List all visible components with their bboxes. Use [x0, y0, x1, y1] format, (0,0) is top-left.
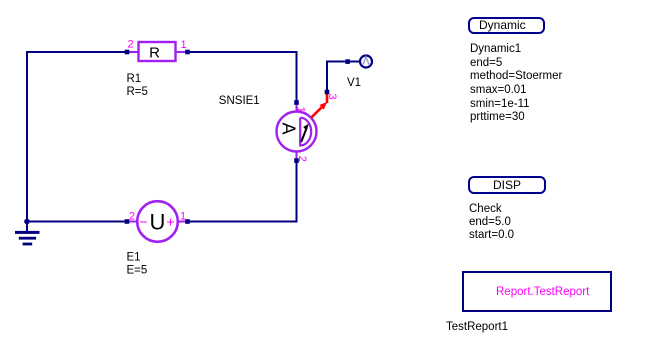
report designator label TestReport1	[446, 321, 508, 335]
display settings header DISP	[468, 176, 546, 194]
svg-text:+: +	[166, 214, 174, 230]
report block Report.TestReport	[462, 271, 612, 312]
wire	[26, 221, 127, 223]
wire	[327, 62, 360, 93]
svg-text:R=5: R=5	[127, 86, 148, 98]
voltage probe V1	[360, 56, 372, 68]
probe pin 3 square	[325, 90, 330, 95]
svg-text:2: 2	[296, 156, 308, 162]
ammeter SNSIE1	[277, 104, 317, 159]
ammeter SNSIE1 pin 2 square	[294, 158, 299, 163]
wire	[187, 52, 297, 102]
svg-text:SNSIE1: SNSIE1	[219, 95, 260, 107]
voltage source E1 pin 1 square	[185, 219, 190, 224]
svg-text:1: 1	[180, 211, 186, 223]
svg-text:A: A	[279, 122, 299, 134]
svg-text:1: 1	[180, 39, 186, 51]
svg-text:1: 1	[295, 107, 307, 113]
svg-text:E=5: E=5	[127, 265, 148, 277]
wire	[27, 52, 127, 223]
simulation settings header Dynamic	[468, 17, 545, 34]
svg-text:−: −	[139, 214, 147, 230]
report block label	[496, 286, 589, 300]
svg-text:3: 3	[326, 93, 338, 99]
voltage source E1	[129, 201, 186, 242]
svg-text:V1: V1	[347, 77, 361, 89]
display settings text Check	[469, 203, 514, 242]
simulation settings text Dynamic1	[470, 43, 562, 125]
resistor R1	[129, 42, 186, 62]
resistor R1 pin 2 square	[125, 50, 130, 55]
svg-text:R1: R1	[127, 73, 142, 85]
svg-text:2: 2	[129, 211, 135, 223]
svg-text:U: U	[150, 210, 166, 235]
voltage source E1 pin 2 square	[125, 219, 130, 224]
ammeter SNSIE1 pin 1 square	[294, 100, 299, 105]
wire	[187, 161, 297, 222]
current sense arrow	[311, 94, 327, 118]
svg-text:2: 2	[127, 39, 133, 51]
svg-text:E1: E1	[127, 252, 141, 264]
svg-text:R: R	[149, 45, 160, 62]
resistor R1 pin 1 square	[185, 50, 190, 55]
ground	[15, 219, 40, 246]
junction	[345, 59, 350, 64]
